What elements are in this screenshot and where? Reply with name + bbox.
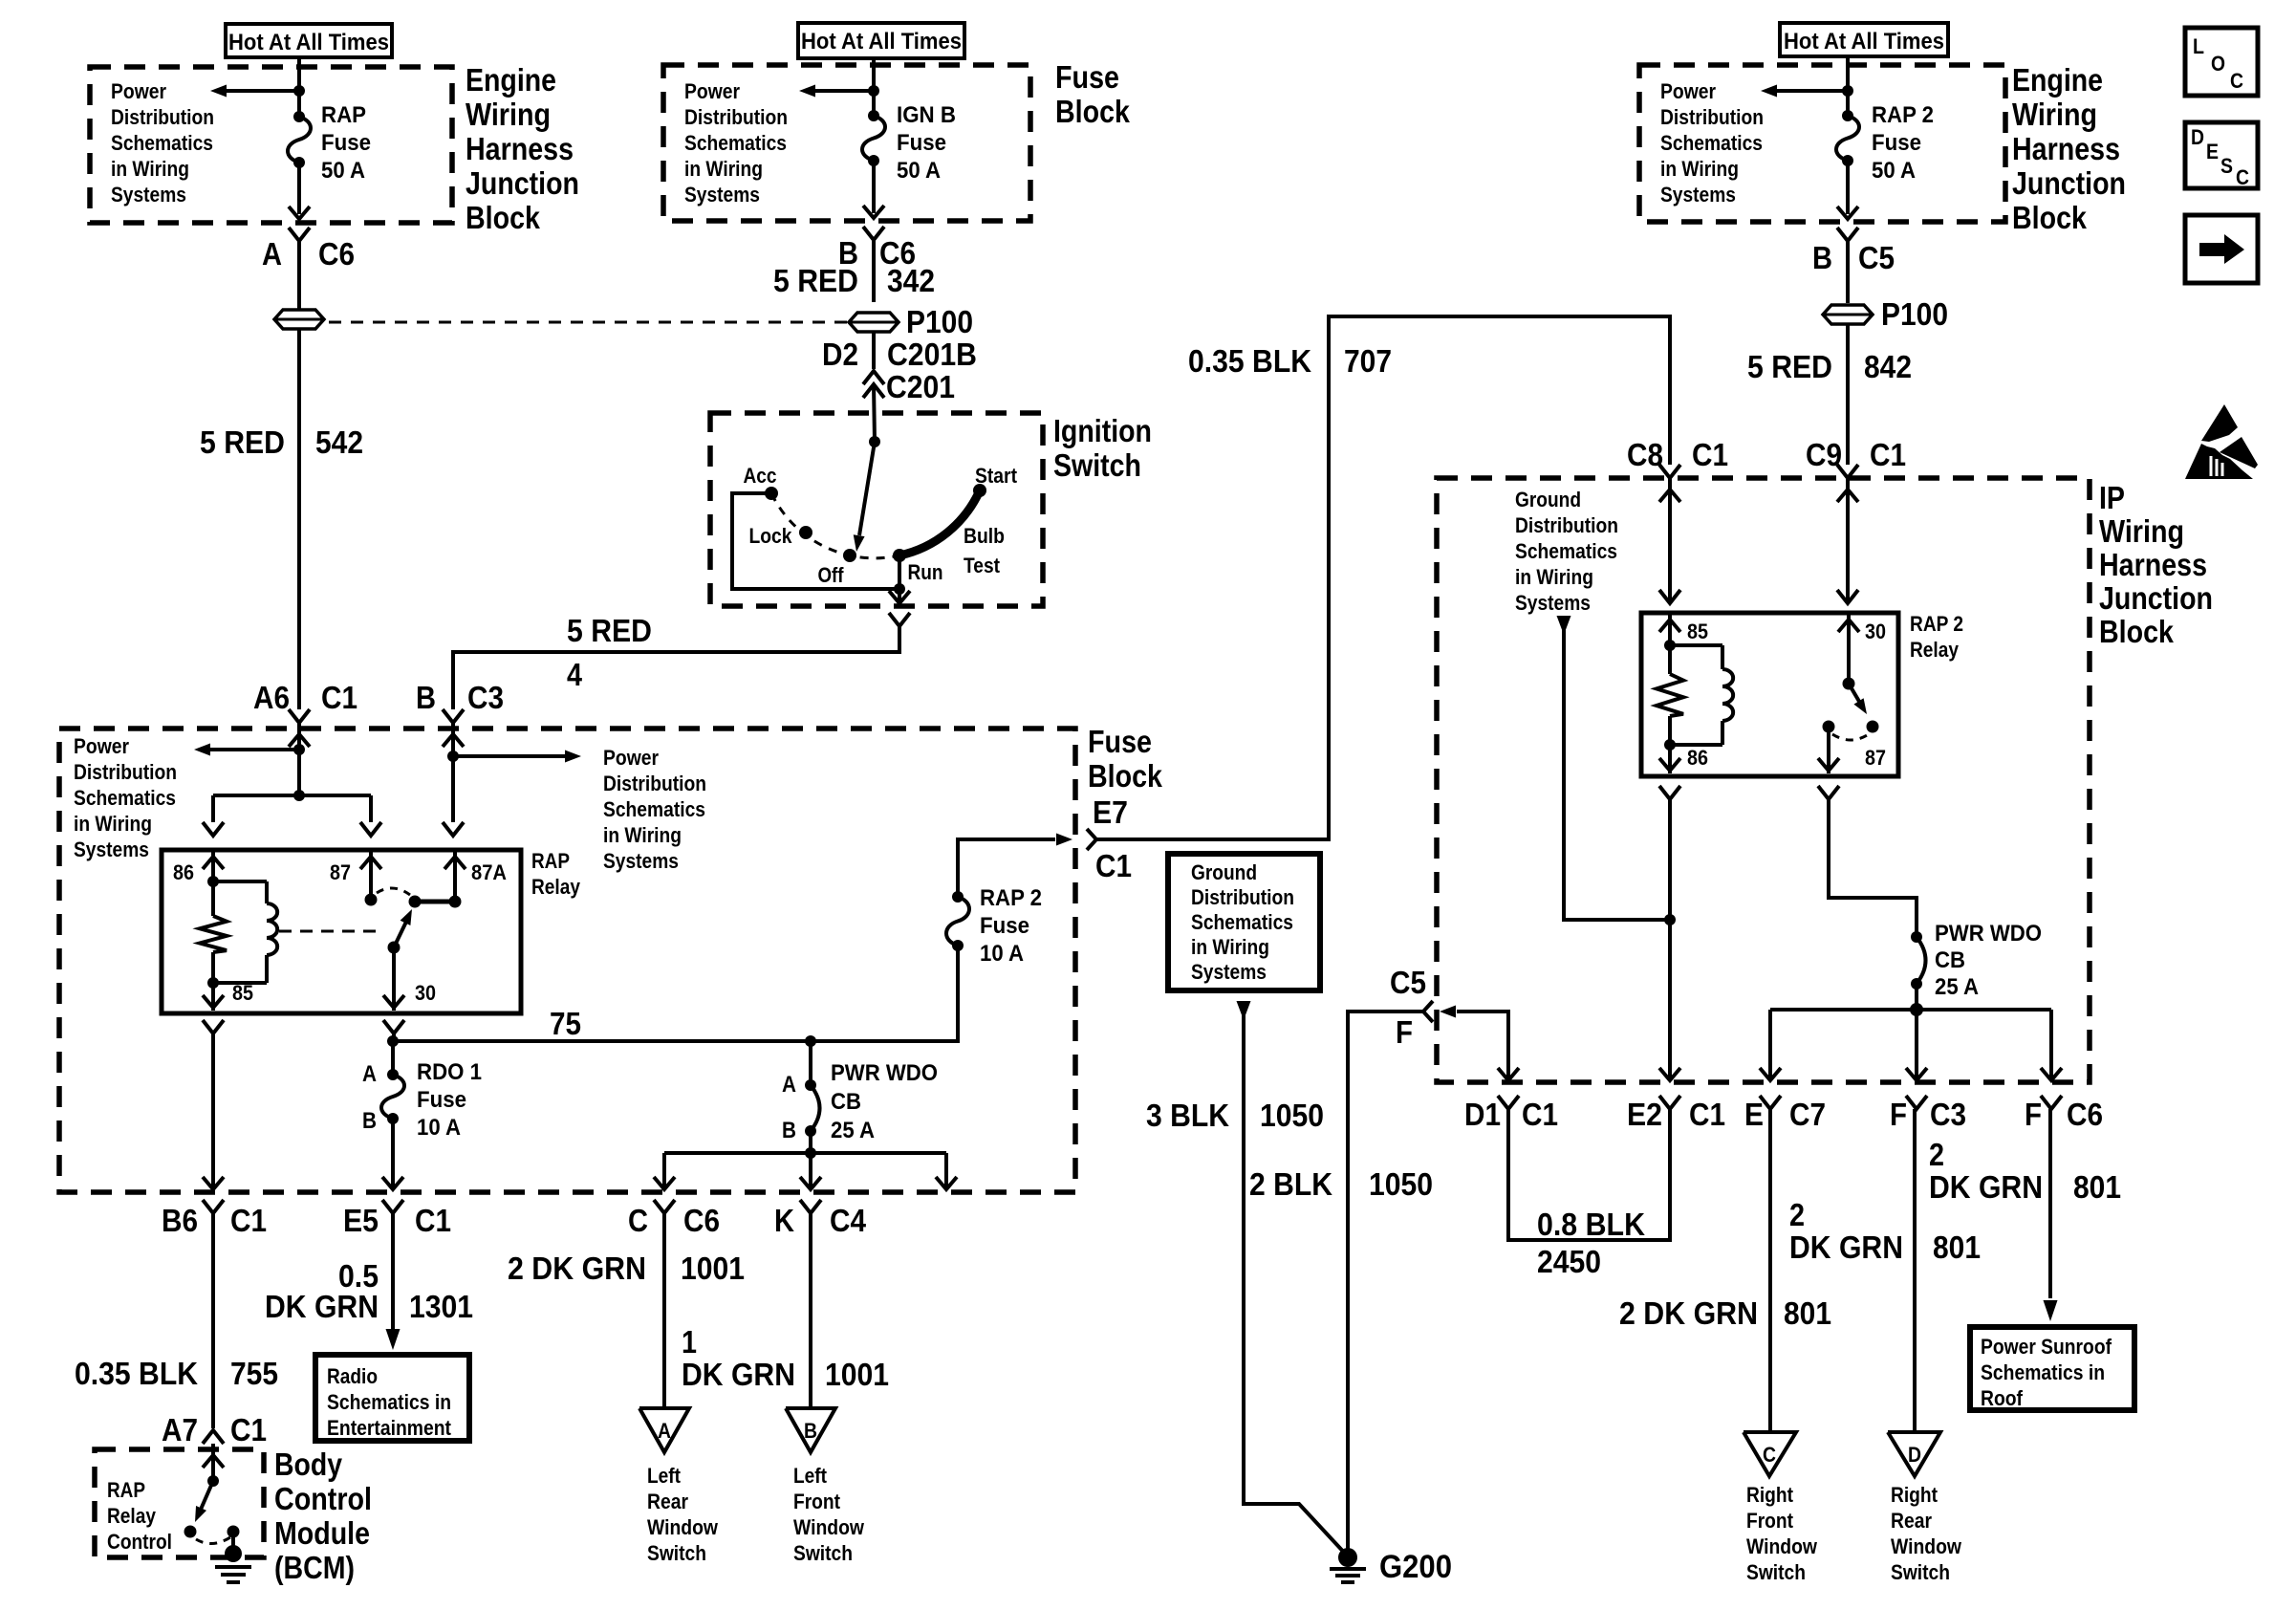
svg-text:25 A: 25 A [831, 1118, 875, 1143]
connector C3 terminal B (female) [443, 709, 464, 723]
svg-text:in Wiring: in Wiring [74, 812, 152, 836]
svg-text:Block: Block [1055, 94, 1131, 129]
triangle terminal D (right rear window switch) [1888, 1432, 1940, 1476]
relay pin 85 lead [203, 983, 224, 1011]
label: A | C6 [262, 236, 355, 272]
label: B6 | C1 [162, 1203, 267, 1238]
svg-text:Harness: Harness [2012, 131, 2120, 166]
svg-text:C1: C1 [1689, 1097, 1725, 1132]
label: A7 | C1 [162, 1412, 267, 1447]
power feed label box (Hot At All Times, right) [1780, 23, 1948, 56]
svg-text:801: 801 [1933, 1229, 1981, 1265]
connector C1 terminal E2 (female) [1659, 1096, 1680, 1109]
contact: Start [973, 464, 1018, 497]
svg-text:Switch: Switch [1891, 1560, 1950, 1584]
node: ground junction at E2 column [1664, 914, 1676, 925]
connector: relay pin 87 socket [360, 822, 381, 836]
fuse RAP 2 Fuse 50 A [1836, 110, 1859, 166]
svg-text:30: 30 [1865, 620, 1886, 643]
icon box LOC [2185, 28, 2258, 96]
svg-text:PWR WDO: PWR WDO [1935, 921, 2042, 946]
svg-text:3 BLK: 3 BLK [1146, 1098, 1229, 1133]
svg-text:Harness: Harness [2099, 547, 2207, 582]
svg-text:Distribution: Distribution [1191, 885, 1294, 909]
label: B | C6 [838, 235, 916, 271]
node: RAP 2 coil top [1664, 640, 1676, 651]
svg-text:A: A [658, 1419, 671, 1443]
wire: branch arrow to power distribution schematics (right) [453, 751, 581, 763]
svg-text:DK GRN: DK GRN [265, 1289, 379, 1324]
label: 5 RED | 842 [1747, 349, 1912, 384]
text: Right Rear Window Switch [1891, 1483, 1962, 1584]
svg-text:Front: Front [793, 1490, 841, 1513]
svg-text:85: 85 [232, 981, 253, 1005]
node: relay arm pivot [388, 942, 401, 954]
wire 801: F/C6 to power sunroof [2044, 1109, 2058, 1321]
fuse IGN B Fuse 50 A [862, 110, 885, 166]
reference box: Radio Schematics in Entertainment [315, 1355, 469, 1441]
wire 542: connector to A6/C1 [297, 330, 301, 709]
dashed actuation link (coil to arm) [279, 930, 382, 933]
wire 2450 (0.8 BLK): E2 to D1 loop [1508, 1109, 1670, 1240]
label: 0.5 / DK GRN | 1301 [265, 1258, 473, 1324]
svg-text:Ground: Ground [1191, 860, 1257, 884]
wire: 75 junction down to PWR WDO CB [809, 1041, 812, 1085]
svg-text:DK GRN: DK GRN [1929, 1169, 2043, 1205]
svg-text:O: O [2211, 52, 2225, 76]
svg-text:Relay: Relay [531, 875, 581, 899]
svg-text:C3: C3 [1930, 1097, 1966, 1132]
connector: E7 exit chevron [1087, 829, 1096, 850]
wire 801: E/C7 to right front window switch [1768, 1109, 1772, 1432]
wire: A6/C1 into fuse block [289, 723, 310, 795]
text: Ground Distribution Schematics in Wiring Systems (IP box) [1515, 488, 1618, 615]
svg-text:Power: Power [111, 79, 166, 103]
wire 755: B6/C1 down to A7/C1 [211, 1213, 215, 1428]
svg-text:Acc: Acc [744, 464, 777, 488]
svg-text:C201B: C201B [887, 337, 977, 372]
svg-text:L: L [2193, 34, 2204, 58]
svg-text:Distribution: Distribution [111, 105, 214, 129]
svg-text:Systems: Systems [1660, 183, 1736, 207]
svg-text:Fuse: Fuse [1088, 724, 1152, 759]
wire 707: E7 to C8/C1 [1096, 316, 1670, 839]
wire: branch to power distribution (left arrow) [210, 85, 299, 98]
wire: B/C6 to P100 [872, 240, 876, 302]
relay RAP Relay box [162, 850, 521, 1013]
svg-text:1001: 1001 [681, 1251, 745, 1286]
svg-text:2: 2 [1929, 1137, 1944, 1172]
wire: tee to RAP relay pins 86 and 87 [213, 795, 371, 822]
svg-text:Systems: Systems [603, 849, 679, 873]
label: pin 87A [471, 860, 507, 884]
fuse RAP 2 Fuse 10 A [946, 891, 969, 951]
svg-text:Power: Power [684, 79, 740, 103]
svg-text:0.8 BLK: 0.8 BLK [1537, 1207, 1645, 1242]
node: distribution bar junction [805, 1147, 816, 1159]
svg-text:CB: CB [831, 1089, 861, 1115]
label: D1 | C1 [1464, 1097, 1558, 1132]
wire: distribution bar [664, 1151, 946, 1155]
svg-text:Ignition: Ignition [1053, 413, 1152, 448]
connector: relay pin 85 socket [203, 1020, 224, 1033]
svg-text:Wiring: Wiring [466, 97, 551, 132]
label: 0.8 BLK [1537, 1207, 1645, 1242]
text: Power Distribution Schematics in Wiring Systems (top-left box) [111, 79, 214, 207]
svg-text:C1: C1 [1522, 1097, 1558, 1132]
Body Control Module dashed box [95, 1449, 264, 1557]
svg-text:E2: E2 [1627, 1097, 1662, 1132]
power feed label box (Hot At All Times, left) [226, 24, 392, 57]
svg-text:4: 4 [567, 657, 583, 692]
wire: IP bar drop to E/C7 [1760, 1010, 1781, 1080]
wire: branch to power distribution (left arrow, right) [1761, 85, 1848, 98]
svg-text:PWR WDO: PWR WDO [831, 1060, 938, 1086]
svg-text:Schematics: Schematics [1660, 131, 1763, 155]
label: pin 30 [415, 981, 436, 1005]
svg-text:Test: Test [964, 554, 1001, 577]
wire: IP bar drop to F/C3 [1906, 1010, 1927, 1080]
label: E5 | C1 [343, 1203, 451, 1238]
wire: C9/C1 to RAP 2 relay pin 30 [1837, 478, 1858, 603]
svg-text:Radio: Radio [327, 1364, 378, 1388]
svg-text:Control: Control [274, 1481, 372, 1516]
svg-text:Wiring: Wiring [2099, 513, 2184, 549]
node: RAP 2 contact (87 side) [1823, 721, 1835, 733]
label: C | C6 [628, 1203, 720, 1238]
svg-text:in Wiring: in Wiring [1660, 157, 1739, 181]
svg-text:IP: IP [2099, 480, 2125, 515]
label: pin 86 [173, 860, 194, 884]
label: K | C4 [774, 1203, 867, 1238]
svg-text:D2: D2 [822, 337, 858, 372]
label: 2 BLK | 1050 [1249, 1166, 1433, 1202]
label: C8 | C1 [1627, 437, 1728, 472]
svg-text:Distribution: Distribution [684, 105, 788, 129]
svg-text:Window: Window [1746, 1534, 1818, 1558]
connector C1 terminal E5 (female) [382, 1200, 403, 1213]
svg-text:Harness: Harness [466, 131, 574, 166]
svg-text:707: 707 [1344, 343, 1392, 379]
svg-text:50 A: 50 A [1872, 158, 1916, 184]
circuit breaker PWR WDO CB 25 A (IP) [1911, 931, 1926, 990]
relay pin 87 lead [360, 850, 381, 900]
node: junction to power distribution branch [293, 744, 305, 755]
label: 2450 [1537, 1244, 1601, 1279]
triangle terminal C (right front window switch) [1744, 1432, 1796, 1476]
node: relay feed tee [293, 790, 305, 801]
text: Left Rear Window Switch [647, 1464, 719, 1565]
svg-text:Distribution: Distribution [603, 772, 706, 795]
reference box: Power Sunroof Schematics in Roof [1970, 1327, 2134, 1410]
svg-text:B: B [804, 1419, 817, 1443]
svg-text:C1: C1 [1870, 437, 1906, 472]
svg-text:Junction: Junction [466, 165, 579, 201]
wire: RDO 1 fuse to E5/C1 [382, 1119, 403, 1189]
relay pin 30 lead (RAP 2) [1838, 613, 1859, 684]
svg-text:Switch: Switch [793, 1541, 853, 1565]
label: RAP 2 Relay [1910, 612, 1963, 662]
bulb test thick arc Run-Start [899, 490, 980, 555]
label: 5 RED | 342 [773, 263, 935, 298]
svg-text:Fuse: Fuse [897, 130, 946, 156]
svg-text:Power: Power [603, 746, 659, 770]
label: F | C6 [2025, 1097, 2103, 1132]
wire: battery feed into RAP fuse [297, 55, 301, 117]
text: RAP Relay Control [107, 1478, 172, 1554]
svg-text:5 RED: 5 RED [773, 263, 858, 298]
svg-text:Block: Block [2012, 200, 2088, 235]
svg-text:Rear: Rear [1891, 1509, 1932, 1533]
block title: IP Wiring Harness Junction Block [2099, 480, 2213, 649]
label: 2 DK GRN | 1001 [508, 1251, 745, 1286]
svg-text:Block: Block [1088, 758, 1163, 794]
relay pin 87 lead (RAP 2) [1818, 727, 1839, 773]
label: 2 / DK GRN | 801 (C3) [1789, 1197, 1981, 1265]
relay pin 87A lead [444, 850, 466, 902]
connector C1 terminal C9 (female) [1837, 465, 1858, 478]
svg-text:Body: Body [274, 1447, 343, 1482]
reference box: Ground Distribution Schematics in Wiring Systems [1168, 854, 1320, 990]
wire: IP ground distribution branch [1557, 616, 1671, 920]
relay RAP 2 Relay box [1641, 613, 1898, 776]
connector C1 terminal A7 (male) [203, 1430, 224, 1444]
svg-text:86: 86 [173, 860, 194, 884]
connector: RAP 2 relay pin 86 socket [1659, 786, 1680, 799]
svg-text:C1: C1 [1692, 437, 1728, 472]
connector C1 terminal A6 (female) [289, 709, 310, 723]
label: D2 | C201B [822, 337, 977, 372]
relay pin 85 lead (RAP 2) [1659, 613, 1680, 645]
svg-text:C6: C6 [318, 236, 355, 272]
connector C1 terminal B6 (female) [203, 1200, 224, 1213]
svg-text:C1: C1 [321, 680, 357, 715]
label: pin 85 [232, 981, 253, 1005]
wire: BCM contact to ground [231, 1532, 235, 1550]
wire: bar drop to K/C4 [800, 1153, 821, 1189]
svg-text:Systems: Systems [684, 183, 760, 207]
label: fuse terminal B [362, 1108, 377, 1134]
wire: RAP 2 fuse to connector B/C5 [1837, 161, 1858, 219]
svg-text:Window: Window [647, 1515, 719, 1539]
label: E7 [1093, 794, 1128, 830]
label: C5 [1390, 965, 1426, 1000]
text: Power Distribution Schematics in Wiring Systems (middle box) [684, 79, 788, 207]
svg-text:1050: 1050 [1369, 1166, 1433, 1202]
svg-text:Run: Run [908, 560, 943, 584]
svg-text:D: D [1908, 1443, 1921, 1467]
svg-text:DK GRN: DK GRN [1789, 1229, 1903, 1265]
wire: RAP 2 pin 86 to E2 exit [1659, 799, 1680, 1080]
svg-text:Fuse: Fuse [321, 130, 371, 156]
svg-text:S: S [2220, 154, 2233, 178]
connector: relay pin 87A socket [443, 822, 464, 836]
wire: B/C5 to P100 (right) [1846, 241, 1850, 303]
svg-text:87A: 87A [471, 860, 507, 884]
svg-text:Systems: Systems [111, 183, 186, 207]
svg-text:10 A: 10 A [980, 941, 1024, 967]
wire: IGN B fuse to connector B/C6 [863, 161, 884, 218]
svg-text:RAP: RAP [531, 849, 570, 873]
svg-text:85: 85 [1687, 620, 1708, 643]
wire: relay 30 to junction 75 [392, 1033, 396, 1041]
wire: RAP fuse to connector A/C6 [289, 163, 310, 219]
svg-text:D: D [2191, 125, 2204, 149]
node: coil top [207, 876, 219, 887]
svg-text:Rear: Rear [647, 1490, 688, 1513]
Engine Wiring Harness Junction Block dashed box (right) [1639, 65, 2005, 222]
svg-text:C: C [1763, 1443, 1776, 1467]
block title: Ignition Switch [1053, 413, 1152, 483]
svg-text:C7: C7 [1789, 1097, 1826, 1132]
node: BCM contact [184, 1526, 197, 1538]
svg-text:K: K [774, 1203, 794, 1238]
svg-text:B6: B6 [162, 1203, 198, 1238]
contact: Run [893, 549, 943, 584]
connector: RAP 2 relay pin 85 socket [1659, 590, 1680, 603]
svg-text:Module: Module [274, 1515, 370, 1551]
svg-text:Fuse: Fuse [1055, 59, 1119, 95]
connector: relay pin 30 socket [383, 1020, 404, 1033]
node: ignition feed pivot [869, 436, 880, 447]
svg-text:Systems: Systems [1191, 960, 1267, 984]
svg-text:A: A [362, 1061, 377, 1087]
wire: battery feed into IGN B fuse [872, 56, 876, 116]
fuse RAP Fuse 50 A [288, 111, 311, 168]
svg-text:86: 86 [1687, 746, 1708, 770]
label: 0.35 BLK | 755 [75, 1356, 278, 1391]
label: E | C7 [1744, 1097, 1826, 1132]
svg-text:0.35 BLK: 0.35 BLK [75, 1356, 198, 1391]
svg-text:Engine: Engine [466, 62, 556, 98]
relay switch arm [394, 909, 412, 947]
svg-text:C1: C1 [230, 1412, 267, 1447]
svg-text:RDO 1: RDO 1 [417, 1059, 482, 1085]
label: 3 BLK | 1050 [1146, 1098, 1324, 1133]
svg-text:B: B [416, 680, 436, 715]
wire: BCM input with up arrow [203, 1455, 224, 1468]
svg-text:1301: 1301 [409, 1289, 473, 1324]
svg-text:Junction: Junction [2099, 580, 2213, 616]
svg-text:Fuse: Fuse [1872, 130, 1921, 156]
triangle terminal B (left front window switch) [786, 1408, 835, 1452]
svg-text:RAP 2: RAP 2 [980, 885, 1042, 911]
wire 842: P100 to C9/C1 [1846, 325, 1850, 465]
svg-text:B: B [1812, 240, 1832, 275]
wire: ignition output through box edge [889, 589, 910, 603]
svg-text:Right: Right [1891, 1483, 1939, 1507]
svg-text:2 BLK: 2 BLK [1249, 1166, 1332, 1202]
svg-text:Hot At All Times: Hot At All Times [1784, 29, 1944, 54]
icon box forward arrow [2185, 215, 2258, 283]
label: 1 / DK GRN | 1001 [682, 1324, 889, 1392]
svg-text:50 A: 50 A [321, 158, 365, 184]
label: E2 | C1 [1627, 1097, 1725, 1132]
svg-text:Block: Block [2099, 614, 2175, 649]
connector C4 terminal K (female) [800, 1200, 821, 1213]
svg-text:Systems: Systems [74, 838, 149, 861]
svg-text:C1: C1 [1095, 848, 1132, 883]
label: RDO 1 Fuse 10 A [417, 1059, 482, 1141]
label: B | C3 [416, 680, 504, 715]
svg-text:Start: Start [975, 464, 1018, 488]
wire: Acc loop to Run output [732, 493, 899, 589]
svg-text:Window: Window [1891, 1534, 1962, 1558]
node: BCM ground contact [227, 1526, 240, 1538]
node: relay contact 87A [409, 896, 462, 908]
label: B | C5 [1812, 240, 1895, 275]
svg-text:Power: Power [1660, 79, 1716, 103]
svg-text:2450: 2450 [1537, 1244, 1601, 1279]
wire: IP bar drop to F/C6 [2041, 1010, 2062, 1080]
label: pin 86 (RAP 2) [1687, 746, 1708, 770]
text: Power Distribution Schematics in Wiring Systems (fuse block right) [603, 746, 706, 873]
svg-text:C9: C9 [1806, 437, 1842, 472]
dashed arc BCM alternate [196, 1537, 230, 1544]
label: IGN B Fuse 50 A [897, 102, 956, 184]
wire: CB to IP distribution bar [1915, 984, 1918, 1010]
ESD warning symbol [2185, 404, 2258, 479]
svg-text:A7: A7 [162, 1412, 198, 1447]
svg-text:Left: Left [793, 1464, 828, 1488]
text: Power Distribution Schematics in Wiring Systems (right box) [1660, 79, 1764, 207]
connector C201 (male/female pair) [863, 371, 884, 398]
wire: branch to power distribution (left arrow, middle) [799, 85, 874, 98]
contact: Acc [744, 464, 779, 500]
switch arm (ignition, feed to Off/Run) [854, 442, 875, 552]
wire: junction down to RDO 1 fuse [391, 1041, 395, 1075]
wire: RAP 2 pin 87 to PWR WDO CB (IP) [1829, 799, 1917, 937]
svg-text:842: 842 [1864, 349, 1912, 384]
svg-text:in Wiring: in Wiring [684, 157, 763, 181]
label: 2 / DK GRN | 801 (C6) [1929, 1137, 2121, 1205]
svg-text:342: 342 [887, 263, 935, 298]
svg-text:F: F [1396, 1014, 1413, 1050]
svg-text:25 A: 25 A [1935, 974, 1979, 1000]
svg-text:C1: C1 [415, 1203, 451, 1238]
IP Wiring Harness Junction Block dashed box [1437, 478, 2090, 1082]
svg-text:Relay: Relay [107, 1504, 157, 1528]
svg-text:E: E [1744, 1097, 1764, 1132]
svg-text:in Wiring: in Wiring [603, 823, 682, 847]
svg-text:Hot At All Times: Hot At All Times [801, 29, 962, 54]
inline connector P100 (right) [1823, 296, 1948, 332]
svg-text:C1: C1 [230, 1203, 267, 1238]
connector C6 terminal F (female) [2041, 1096, 2062, 1109]
node: relay contact 87 [365, 894, 378, 906]
svg-text:Entertainment: Entertainment [327, 1416, 452, 1440]
contact: Off [818, 549, 857, 587]
svg-text:A: A [262, 236, 282, 272]
svg-text:Distribution: Distribution [74, 760, 177, 784]
wire: RAP 2 fuse to E7 exit [958, 834, 1072, 898]
svg-text:Schematics in: Schematics in [1981, 1360, 2105, 1384]
svg-text:Schematics: Schematics [111, 131, 213, 155]
svg-text:Front: Front [1746, 1509, 1794, 1533]
wire: branch arrow to power distribution schematics [194, 744, 299, 756]
relay coil resistor [200, 881, 227, 983]
rotary dashed arc Acc-Lock-Off-Run [771, 493, 899, 558]
label: fuse terminal A [362, 1061, 377, 1087]
svg-text:DK GRN: DK GRN [682, 1357, 795, 1392]
svg-text:in Wiring: in Wiring [1515, 565, 1593, 589]
BCM switch arm [195, 1481, 213, 1522]
node: ignition output junction [894, 583, 905, 595]
svg-text:2: 2 [1789, 1197, 1805, 1232]
svg-text:C5: C5 [1858, 240, 1895, 275]
label: C201 [886, 369, 955, 404]
svg-text:Junction: Junction [2012, 165, 2126, 201]
